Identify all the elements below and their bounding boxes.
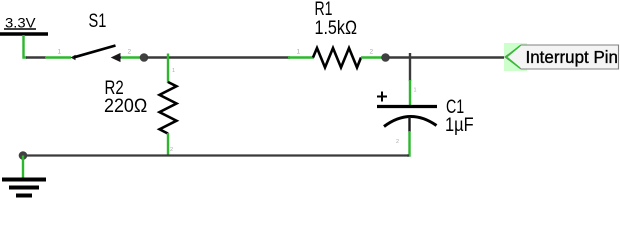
svg-text:2: 2 — [128, 49, 132, 56]
junction node A — [140, 53, 149, 62]
svg-text:1: 1 — [172, 68, 175, 74]
svg-text:2: 2 — [370, 49, 374, 56]
svg-text:S1: S1 — [89, 11, 107, 32]
wire ground drop (green) — [22, 156, 24, 180]
ground junction node — [19, 151, 28, 160]
interrupt pin flag chevron — [507, 46, 521, 68]
interrupt pin flag body — [505, 45, 619, 69]
bottom rail wire — [23, 154, 409, 156]
switch S1 pin 1 terminal arrow — [71, 55, 76, 61]
svg-text:1: 1 — [297, 49, 301, 56]
wire junction to interrupt flag — [388, 56, 506, 58]
wire from 3.3V bar down — [24, 35, 28, 58]
wire from switch pin 2 to junction — [121, 56, 142, 58]
capacitor C1 top plate — [377, 105, 437, 108]
interrupt pin flag highlight — [504, 43, 527, 71]
wire C1 to bottom rail (green) — [407, 131, 410, 156]
svg-text:1: 1 — [58, 49, 62, 56]
capacitor C1 bottom lead — [408, 117, 410, 132]
svg-text:2: 2 — [396, 139, 399, 145]
svg-text:220Ω: 220Ω — [104, 96, 147, 117]
ground symbol — [2, 180, 46, 196]
svg-text:1µF: 1µF — [445, 115, 474, 136]
svg-text:R1: R1 — [315, 0, 333, 20]
wire C1 branch (dark, down from rail) — [409, 53, 411, 81]
capacitor C1 curved plate — [384, 116, 437, 126]
wire junction to R1 — [146, 56, 290, 58]
svg-text:2: 2 — [170, 147, 173, 153]
wire green segment to switch pin 1 — [45, 56, 71, 58]
R2 branch wire (green, down from rail) — [167, 54, 169, 84]
switch S1 pin 2 terminal arrow — [113, 54, 122, 60]
wire to R1 pin 1 (green) — [288, 56, 314, 58]
wire C1 branch (green) — [409, 80, 411, 105]
switch S1 lever — [74, 46, 116, 58]
wire R1 pin 2 to junction (green) — [361, 56, 383, 58]
wire R2 to bottom rail (green) — [167, 133, 169, 157]
wire dark segment to switch — [26, 56, 46, 58]
net label 3.3V — [4, 15, 36, 31]
svg-text:1.5kΩ: 1.5kΩ — [315, 18, 358, 39]
junction node B — [381, 53, 390, 62]
capacitor C1 plus sign — [377, 92, 387, 102]
resistor R2 body — [160, 82, 177, 134]
svg-text:1: 1 — [414, 88, 417, 94]
svg-text:3.3V: 3.3V — [5, 15, 36, 31]
power symbol 3.3V bar — [0, 32, 48, 35]
svg-text:Interrupt Pin: Interrupt Pin — [526, 47, 619, 67]
resistor R1 body — [313, 48, 361, 68]
